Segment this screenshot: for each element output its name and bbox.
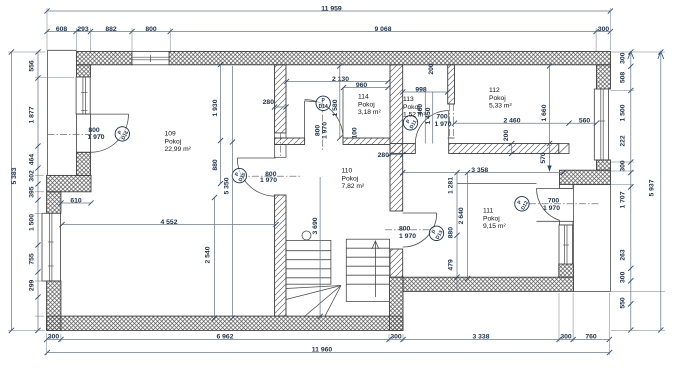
svg-text:1 930: 1 930 (212, 99, 219, 116)
door D16 axis line (48, 134, 104, 136)
svg-text:755: 755 (29, 253, 36, 265)
svg-text:1 970: 1 970 (434, 121, 451, 128)
svg-text:3 358: 3 358 (471, 167, 488, 174)
svg-text:300: 300 (620, 52, 627, 64)
svg-text:3,18 m²: 3,18 m² (358, 109, 381, 116)
dim 610 horizontal line (61, 202, 91, 204)
dim 1281/880/479 vertical chain room 111 (456, 173, 458, 292)
dim 2130 horizontal (287, 81, 389, 83)
svg-text:9 068: 9 068 (374, 26, 391, 33)
svg-text:960: 960 (356, 82, 368, 89)
door D12 circle marker P/D12 (515, 197, 530, 211)
left extension lines (8, 51, 45, 53)
dim 3358 horizontal corridor (403, 172, 564, 174)
dim 200 vertical room 112 wall (511, 144, 513, 154)
outer wall: left lower above window (47, 192, 61, 214)
svg-text:5,33 m²: 5,33 m² (489, 103, 512, 110)
svg-text:1 660: 1 660 (541, 104, 548, 121)
outer wall: left lower below window (47, 281, 61, 330)
partition wall B below door D13 (390, 249, 403, 277)
svg-text:9,15 m²: 9,15 m² (483, 223, 506, 230)
dim 2460 horizontal room 112 (455, 122, 597, 124)
partition wall A upper (room109/hall) (275, 65, 287, 133)
svg-text:112: 112 (489, 87, 500, 94)
svg-text:700: 700 (548, 197, 560, 204)
door D16 opening in left wall (77, 114, 91, 152)
door D11 leaf and swing arc (448, 111, 450, 144)
partition wall B upper (390, 65, 403, 211)
svg-text:800: 800 (315, 125, 322, 137)
dim 1450 vertical room 113 (432, 92, 434, 144)
svg-text:760: 760 (585, 334, 597, 341)
wall block A right connector (560, 170, 611, 184)
svg-text:Pokoj: Pokoj (489, 95, 506, 102)
partition wall A gap caps at H1 junction (275, 133, 287, 138)
svg-text:608: 608 (56, 26, 68, 33)
window W1 in top wall (132, 52, 169, 65)
svg-text:300: 300 (48, 334, 60, 341)
door D14 axis line (322, 102, 324, 150)
svg-text:5 350: 5 350 (224, 177, 231, 194)
svg-text:7,82 m²: 7,82 m² (342, 183, 365, 190)
door D14 circle marker P/D14 (316, 96, 330, 110)
door D15 axis line (239, 175, 302, 177)
bottom dimension chain (47, 339, 610, 341)
dim 1930/880 vertical line (220, 65, 222, 184)
wall right of room 111 below window (559, 264, 574, 277)
svg-text:464: 464 (29, 154, 36, 166)
door D15 circle marker P/D15 (232, 168, 247, 182)
door D13 axis line (385, 229, 432, 231)
svg-text:1 707: 1 707 (620, 191, 627, 208)
door D11 circle marker P/D11 (403, 116, 418, 130)
svg-text:302: 302 (29, 170, 36, 182)
svg-text:3 690: 3 690 (312, 217, 319, 234)
svg-text:3 338: 3 338 (472, 334, 489, 341)
outer wall: bottom (47, 316, 403, 330)
svg-text:882: 882 (105, 26, 117, 33)
svg-text:109: 109 (165, 131, 176, 138)
right dimension chain (630, 52, 632, 330)
dim 3690 stairs vertical (319, 177, 321, 316)
svg-text:5 383: 5 383 (11, 167, 18, 184)
room 113 label (403, 96, 426, 119)
svg-text:D14: D14 (319, 104, 328, 110)
room 109 label (165, 131, 192, 154)
svg-text:100: 100 (352, 127, 359, 139)
room 112 label (489, 87, 512, 110)
dim 4552 horizontal line (62, 224, 276, 226)
partition wall H2 right of door D11 (449, 144, 559, 154)
room 110 label (342, 168, 365, 191)
dim 960 horizontal (344, 87, 389, 89)
window W4 in right wall (594, 89, 608, 160)
svg-text:1 970: 1 970 (260, 177, 277, 184)
svg-text:800: 800 (145, 26, 157, 33)
svg-text:479: 479 (448, 259, 455, 271)
dim 570 vertical (549, 144, 551, 172)
svg-text:1 970: 1 970 (543, 205, 560, 212)
dim 1660 vertical room 112 (549, 66, 551, 144)
outer wall: right below window (597, 160, 611, 170)
svg-text:263: 263 (620, 249, 627, 261)
svg-text:293: 293 (77, 26, 89, 33)
dim 280 wall B at corridor (390, 154, 403, 156)
svg-text:110: 110 (342, 168, 353, 175)
ledge outline top-left (47, 50, 49, 175)
top extension lines (46, 8, 48, 50)
room 111 top edge line (457, 183, 537, 185)
dim 2540 vertical line (214, 198, 216, 319)
svg-text:300: 300 (598, 26, 610, 33)
svg-text:560: 560 (579, 117, 591, 124)
door D16 leaf and swing arc (90, 113, 128, 115)
overall top dimension 11 959 (47, 10, 610, 12)
svg-text:299: 299 (29, 280, 36, 292)
wall A opening axis dash-dot (279, 133, 281, 157)
door D12 leaf and swing arc (537, 187, 571, 189)
left dimension chain (37, 52, 39, 330)
svg-text:Pokoj: Pokoj (342, 175, 359, 182)
wall H2 end cap box (559, 144, 569, 154)
svg-text:2 640: 2 640 (458, 207, 465, 224)
svg-text:556: 556 (29, 60, 36, 72)
left overall dimension 5 383 (10, 52, 12, 330)
door D14 leaf and swing arc (304, 101, 306, 138)
outer wall: stair-side corner pier (390, 277, 404, 330)
outer wall: top, left of window (77, 52, 133, 65)
svg-text:570: 570 (540, 152, 547, 164)
svg-text:1 281: 1 281 (448, 177, 455, 194)
svg-text:Pokoj: Pokoj (165, 138, 182, 145)
top dimension chain (47, 31, 610, 33)
svg-text:Pokoj: Pokoj (358, 101, 375, 108)
svg-text:610: 610 (70, 197, 82, 204)
svg-text:2 460: 2 460 (503, 117, 520, 124)
svg-text:880: 880 (448, 227, 455, 239)
door D13 leaf and swing arc (403, 212, 437, 214)
stair newel circle (302, 231, 311, 240)
stairs right flight (346, 239, 389, 301)
svg-text:280: 280 (378, 152, 390, 159)
svg-text:200: 200 (503, 130, 510, 142)
svg-text:1 970: 1 970 (87, 134, 104, 141)
svg-text:11 960: 11 960 (312, 347, 333, 354)
stairs winder steps (286, 284, 341, 316)
door D12 axis line (529, 203, 600, 205)
bottom extension lines (46, 333, 48, 355)
svg-text:1 450: 1 450 (425, 107, 432, 124)
svg-text:1 970: 1 970 (322, 122, 329, 139)
svg-text:113: 113 (403, 96, 414, 103)
svg-text:800: 800 (399, 226, 411, 233)
right overall dimension 5 937 (660, 52, 662, 330)
door D13 circle marker P/D13 (429, 226, 444, 240)
right wall of room 111 cap above door D12 (560, 185, 574, 189)
svg-text:111: 111 (483, 208, 493, 215)
wall step block left (47, 175, 91, 191)
svg-text:200: 200 (428, 63, 435, 75)
door D15 leaf and swing arc (237, 157, 275, 159)
outer wall: left upper segment above window (77, 65, 91, 77)
svg-text:Pokoj: Pokoj (483, 215, 500, 222)
svg-text:460: 460 (417, 104, 424, 116)
svg-text:300: 300 (620, 271, 627, 283)
outer wall: top, right of window (169, 52, 611, 65)
window W2 in left upper wall (76, 77, 90, 114)
svg-text:300: 300 (390, 334, 402, 341)
partition wall A lower (room109/stairs) (275, 195, 287, 316)
svg-text:4 552: 4 552 (160, 219, 177, 226)
svg-text:5 937: 5 937 (649, 179, 656, 196)
dim 5350 vertical line (232, 66, 234, 318)
svg-text:880: 880 (212, 159, 219, 171)
svg-text:2 540: 2 540 (205, 246, 212, 263)
window W5 in right wall of room 111 (559, 225, 573, 264)
wall below room 111 (403, 277, 574, 291)
right extension lines (611, 51, 665, 53)
svg-text:300: 300 (560, 334, 572, 341)
svg-text:1 877: 1 877 (29, 106, 36, 123)
dim 2640 vertical room 111 (467, 173, 469, 279)
partition wall H1 right of door D14 (343, 138, 390, 145)
svg-text:1 500: 1 500 (29, 214, 36, 231)
window W3 in left lower wall (42, 213, 61, 281)
svg-text:11 959: 11 959 (321, 5, 342, 12)
right wall of room 111 cap below door D12 (560, 221, 574, 225)
svg-text:550: 550 (620, 297, 627, 309)
room 114 label (358, 94, 381, 117)
dim 1580 vertical (339, 66, 341, 138)
svg-text:280: 280 (263, 99, 275, 106)
door D16 circle marker P/D16 (115, 127, 130, 141)
svg-text:2 130: 2 130 (332, 76, 349, 83)
outer wall: left upper below door D16 (77, 152, 91, 175)
partition wall H1 left of door D14 (275, 138, 305, 145)
svg-text:6 962: 6 962 (216, 334, 233, 341)
dim 280 wall A (275, 106, 287, 108)
partition wall between rooms 113 and 112 (448, 65, 455, 104)
svg-text:700: 700 (436, 113, 448, 120)
svg-text:1 580: 1 580 (332, 99, 339, 116)
terrace outline bottom-right (574, 185, 611, 292)
svg-text:114: 114 (358, 94, 369, 101)
partition wall H2 left of door D11 (390, 144, 415, 154)
room 111 label (483, 208, 506, 231)
outer wall: right upper above window (597, 65, 611, 89)
svg-text:22,99 m²: 22,99 m² (165, 146, 192, 153)
svg-text:395: 395 (29, 186, 36, 198)
dim 460 vertical room 113 (424, 92, 426, 144)
svg-text:222: 222 (620, 135, 627, 147)
stairs up arrow (374, 241, 376, 297)
svg-text:1 970: 1 970 (399, 233, 416, 240)
stairs left flight (286, 240, 331, 284)
svg-text:508: 508 (620, 72, 627, 84)
overall bottom dimension 11 960 (47, 352, 609, 354)
svg-text:1 500: 1 500 (620, 104, 627, 121)
dim 998 horizontal (403, 91, 448, 93)
cased opening dashed lines room113/112 wall (449, 104, 451, 138)
room 114 left partition edge (342, 88, 344, 139)
